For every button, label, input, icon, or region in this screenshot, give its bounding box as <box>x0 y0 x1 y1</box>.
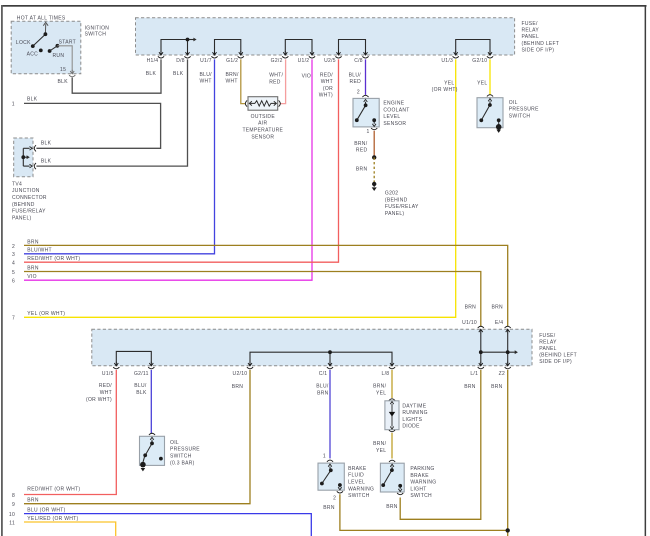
TV4 junction dot <box>21 155 25 159</box>
svg-text:BRN: BRN <box>491 384 503 390</box>
svg-text:OILPRESSURESWITCH(0.3 BAR): OILPRESSURESWITCH(0.3 BAR) <box>170 440 200 466</box>
splice dot BRN/RED-BRN <box>372 155 376 159</box>
oil 0.3bar contact top <box>150 442 154 446</box>
svg-text:BLK: BLK <box>27 97 38 103</box>
ignition switch box <box>11 21 81 74</box>
temperature sensor right terminal <box>279 100 281 106</box>
svg-text:U1/2: U1/2 <box>298 58 310 64</box>
svg-text:PARKINGBRAKEWARNINGLIGHTSWITCH: PARKINGBRAKEWARNINGLIGHTSWITCH <box>410 466 436 499</box>
wire BRN/WHT G1/2 to temperature sensor <box>241 59 246 103</box>
svg-text:BLK: BLK <box>173 71 184 77</box>
svg-text:9: 9 <box>12 502 15 508</box>
TV4 internal bus <box>23 147 32 168</box>
pin U2/10 connector <box>247 362 253 369</box>
svg-text:U2/5: U2/5 <box>324 58 336 64</box>
svg-text:RUN: RUN <box>53 53 65 59</box>
svg-text:BRN/YEL: BRN/YEL <box>373 384 386 397</box>
svg-text:BRN: BRN <box>492 305 504 311</box>
svg-text:BRN: BRN <box>465 305 477 311</box>
parking brake switch internals <box>383 464 402 491</box>
svg-text:BRN: BRN <box>323 505 335 511</box>
wire BRN brake fluid switch to junction <box>340 494 508 530</box>
svg-text:U1/3: U1/3 <box>441 58 453 64</box>
oil pressure switch 0.3 bar pin connector <box>149 433 155 440</box>
brake fluid switch internals <box>322 464 342 490</box>
svg-text:U1/5: U1/5 <box>102 371 114 377</box>
parking brake contact top <box>390 468 394 472</box>
ignition switch arrow to HOT feed <box>44 24 46 34</box>
contact RUN <box>48 49 52 53</box>
wire BRN U2/10 to node 9 <box>24 370 250 504</box>
brake fluid switch pin 1 connector <box>327 460 333 467</box>
svg-text:BLK: BLK <box>41 141 52 147</box>
fuse/relay panel (lower) <box>92 329 532 366</box>
pin E/4 connector <box>505 326 511 333</box>
panel internal link H1/4-D/8 with feed arrow <box>161 38 197 52</box>
panel internal link U1/3-G2/10 <box>456 40 490 52</box>
svg-text:BRN: BRN <box>386 504 398 510</box>
svg-text:5: 5 <box>12 270 15 276</box>
panel internal link U1/10-L/1 and E/4-Z2 with feed arrow <box>479 333 518 363</box>
svg-text:BRN: BRN <box>232 384 244 390</box>
diode top connector <box>389 399 395 401</box>
oil switch case ground arrow <box>496 130 501 133</box>
splice dot at G202 <box>372 182 376 186</box>
svg-text:(OR WHT): (OR WHT) <box>432 87 458 93</box>
svg-text:BRN: BRN <box>356 167 368 173</box>
ignition pin 15 connector <box>69 70 75 77</box>
pin C/1 connector <box>327 362 333 369</box>
svg-text:BLU (OR WHT): BLU (OR WHT) <box>27 508 65 514</box>
svg-text:RED/WHT (OR WHT): RED/WHT (OR WHT) <box>27 256 80 262</box>
TV4 pin connector lower <box>34 163 36 169</box>
svg-text:G1/2: G1/2 <box>226 58 238 64</box>
svg-text:2: 2 <box>12 244 15 250</box>
svg-text:G2/10: G2/10 <box>472 58 487 64</box>
svg-text:BLK: BLK <box>58 79 69 85</box>
ground G202 <box>372 184 377 191</box>
wire RED/WHT U1/5 to node 8 <box>24 370 116 495</box>
svg-text:U1/10: U1/10 <box>462 320 477 326</box>
panel internal link U1/5-G2/11 <box>116 351 151 362</box>
page frame top border <box>1 5 647 7</box>
svg-text:2: 2 <box>357 89 360 95</box>
svg-text:1: 1 <box>367 129 370 135</box>
svg-text:U1/7: U1/7 <box>200 58 212 64</box>
wire BLK node 1 to TV4 pin <box>24 103 161 148</box>
svg-text:FUSE/RELAYPANEL(BEHIND LEFTSID: FUSE/RELAYPANEL(BEHIND LEFTSIDE OF I/P) <box>522 21 560 53</box>
oil switch case ground contact <box>496 124 502 130</box>
svg-text:BRN: BRN <box>27 239 39 245</box>
coolant sensor pin 2 connector <box>362 95 368 102</box>
page frame right border <box>645 5 647 536</box>
oil 0.3bar case ground contact <box>140 462 146 468</box>
svg-text:FUSE/RELAYPANEL(BEHIND LEFTSID: FUSE/RELAYPANEL(BEHIND LEFTSIDE OF I/P) <box>539 333 577 365</box>
svg-text:G202(BEHINDFUSE/RELAYPANEL): G202(BEHINDFUSE/RELAYPANEL) <box>385 191 419 217</box>
svg-text:BRN: BRN <box>464 384 476 390</box>
svg-text:G2/2: G2/2 <box>271 58 283 64</box>
wire BLK ignition 15 to H1/4 <box>72 59 161 93</box>
svg-text:YEL: YEL <box>444 80 454 86</box>
wire BLU/BRN C/1 to brake fluid switch <box>329 370 331 459</box>
svg-text:1: 1 <box>323 453 326 459</box>
panel internal bus U2/10-C/1-L/8 <box>250 350 392 362</box>
wire BLU/BLK G2/11 to oil pressure switch 0.3 bar <box>150 370 152 434</box>
svg-text:BRN/RED: BRN/RED <box>354 141 367 154</box>
pin U1/7 connector <box>211 51 217 58</box>
coolant sensor switch internals <box>357 99 376 126</box>
wire BRN Z2 to bottom junction <box>507 370 509 536</box>
parking brake contact right <box>398 484 402 488</box>
panel internal link G2/2-U1/2 <box>285 40 312 52</box>
brake fluid contact right <box>338 483 342 487</box>
engine coolant level sensor box <box>353 98 379 127</box>
contact ACC <box>39 49 43 53</box>
wire BRN node 2 to E/4 <box>24 245 508 326</box>
svg-text:OILPRESSURESWITCH: OILPRESSURESWITCH <box>509 100 539 120</box>
wire WHT/RED G2/2 to temperature sensor <box>280 59 285 103</box>
svg-text:TV4JUNCTIONCONNECTOR(BEHINDFUS: TV4JUNCTIONCONNECTOR(BEHINDFUSE/RELAYPAN… <box>12 181 47 221</box>
svg-text:OUTSIDEAIRTEMPERATURESENSOR: OUTSIDEAIRTEMPERATURESENSOR <box>242 114 283 140</box>
svg-text:IGNITIONSWITCH: IGNITIONSWITCH <box>85 25 110 37</box>
parking brake warning light switch box <box>380 463 404 492</box>
pin G2/10 connector <box>487 51 493 58</box>
svg-text:RED/WHT(ORWHT): RED/WHT(ORWHT) <box>319 72 334 98</box>
svg-text:6: 6 <box>12 279 15 285</box>
pin Z2 connector <box>505 362 511 369</box>
ignition switch lever RUN-START <box>50 46 58 51</box>
pin U1/3 connector <box>453 51 459 58</box>
wire BRN/RED coolant sensor to splice <box>373 131 375 158</box>
svg-text:ENGINECOOLANTLEVELSENSOR: ENGINECOOLANTLEVELSENSOR <box>383 101 409 127</box>
coolant sensor pin 1 connector <box>371 128 377 130</box>
svg-text:7: 7 <box>12 316 15 322</box>
pin U1/2 connector <box>309 51 315 58</box>
svg-text:L/8: L/8 <box>382 371 390 377</box>
oil pressure switch 0.3 bar internals <box>143 437 154 462</box>
coolant sensor contact right <box>372 118 376 122</box>
wire YEL (OR WHT) U1/3 to node 7 <box>24 59 456 317</box>
pin C/8 connector <box>362 51 368 58</box>
temperature sensor resistor element <box>249 101 276 106</box>
parking brake switch pin connector <box>389 460 395 467</box>
wire BRN/YEL L/8 to diode <box>391 370 393 398</box>
pin D/8 connector <box>184 51 190 58</box>
oil switch contact right <box>497 118 501 122</box>
svg-text:WHT/RED: WHT/RED <box>269 73 283 86</box>
wire BRN/YEL diode to parking brake switch <box>391 433 393 459</box>
ignition pivot contact <box>44 32 48 36</box>
pin U1/5 connector <box>113 362 119 369</box>
svg-text:YEL/RED (OR WHT): YEL/RED (OR WHT) <box>27 516 78 522</box>
svg-text:HOT AT ALL TIMES: HOT AT ALL TIMES <box>17 15 66 21</box>
coolant sensor contact bottom-left <box>355 118 359 122</box>
brake fluid contact top <box>329 468 333 472</box>
ignition switch lever LOCK <box>33 34 46 46</box>
svg-text:YEL: YEL <box>477 80 487 86</box>
pin G2/11 connector <box>148 362 154 369</box>
oil 0.3bar contact mid <box>143 453 147 457</box>
page frame left border <box>1 5 3 536</box>
svg-text:LOCK: LOCK <box>16 40 31 46</box>
svg-text:1: 1 <box>12 102 15 108</box>
svg-text:BRN: BRN <box>27 265 39 271</box>
outside air temperature sensor box <box>248 97 278 111</box>
svg-text:11: 11 <box>9 520 15 526</box>
svg-text:YEL (OR WHT): YEL (OR WHT) <box>27 311 65 317</box>
brake fluid contact bottom-left <box>320 482 324 486</box>
svg-text:3: 3 <box>12 252 15 258</box>
wire BLU node 10 going off page <box>24 514 311 536</box>
svg-text:BLU/WHT: BLU/WHT <box>200 72 213 85</box>
svg-text:U2/10: U2/10 <box>233 371 248 377</box>
svg-text:H1/4: H1/4 <box>147 58 159 64</box>
TV4 pin connector upper <box>34 145 36 151</box>
pin U1/10 connector <box>478 326 484 333</box>
panel internal link U1/7-G1/2 <box>215 40 241 52</box>
wire BRN L/1 to parking brake switch <box>400 370 481 519</box>
svg-text:BLU/BRN: BLU/BRN <box>316 384 329 397</box>
svg-text:BRN/WHT: BRN/WHT <box>226 72 239 85</box>
oil 0.3bar case ground arrow <box>141 468 146 471</box>
svg-text:BRN/YEL: BRN/YEL <box>373 441 386 454</box>
wire YEL G2/10 to oil pressure switch <box>489 59 491 95</box>
parking brake contact bottom-left <box>381 483 385 487</box>
pin G2/2 connector <box>282 51 288 58</box>
fuse/relay panel (top) <box>136 18 515 55</box>
contact START <box>56 44 60 48</box>
wire BLU/WHT U1/7 to node 3 <box>24 59 215 253</box>
brake fluid level warning switch box <box>318 463 344 490</box>
svg-text:15: 15 <box>60 67 66 73</box>
svg-text:BLK: BLK <box>41 159 52 165</box>
svg-text:BLU/RED: BLU/RED <box>349 72 362 85</box>
svg-text:BRN: BRN <box>27 498 39 504</box>
svg-text:C/1: C/1 <box>319 371 328 377</box>
oil 0.3bar contact right <box>159 457 163 461</box>
wire YEL/RED node 11 going off page <box>24 522 116 536</box>
svg-text:BLU/WHT: BLU/WHT <box>27 248 52 254</box>
svg-text:10: 10 <box>9 512 15 518</box>
wire BRN splice to G202 (dashed) <box>373 157 375 184</box>
oil pressure switch pin connector <box>487 95 493 102</box>
svg-text:ACC: ACC <box>27 52 39 58</box>
parking brake switch bottom pin connector <box>397 493 403 495</box>
svg-text:C/8: C/8 <box>354 58 363 64</box>
svg-text:VIO: VIO <box>27 274 37 280</box>
oil switch contact top <box>488 103 492 107</box>
svg-text:BRAKEFLUIDLEVELWARNINGSWITCH: BRAKEFLUIDLEVELWARNINGSWITCH <box>348 466 374 499</box>
svg-text:L/1: L/1 <box>470 371 478 377</box>
contact LOCK <box>31 44 35 48</box>
svg-text:4: 4 <box>12 261 15 267</box>
wire RED/WHT U2/5 to node 4 <box>24 59 339 262</box>
oil pressure switch box <box>477 98 503 128</box>
diode bottom connector <box>389 430 395 432</box>
wire BLK D/8 to TV4 pin <box>36 59 187 166</box>
pin H1/4 connector <box>158 51 164 58</box>
svg-text:G2/11: G2/11 <box>134 371 149 377</box>
pin G1/2 connector <box>238 51 244 58</box>
wire BLU/RED C/8 to coolant level sensor <box>365 59 367 95</box>
oil pressure switch internals <box>481 99 498 125</box>
svg-text:RED/WHT (OR WHT): RED/WHT (OR WHT) <box>27 486 80 492</box>
svg-text:VIO: VIO <box>302 74 312 80</box>
coolant sensor contact top <box>364 103 368 107</box>
pin L/8 connector <box>389 362 395 369</box>
TV4 junction connector box <box>14 138 33 177</box>
oil switch contact bottom-left <box>479 118 483 122</box>
svg-text:RED/WHT(OR WHT): RED/WHT(OR WHT) <box>86 383 112 403</box>
pin U2/5 connector <box>335 51 341 58</box>
svg-text:E/4: E/4 <box>495 320 503 326</box>
temperature sensor left terminal <box>245 100 247 106</box>
wire BRN node 5 to U1/10 <box>24 272 481 327</box>
svg-text:BLU/BLK: BLU/BLK <box>134 383 147 396</box>
svg-text:D/8: D/8 <box>176 58 185 64</box>
brake fluid switch pin 2 connector <box>337 491 343 493</box>
junction dot bottom right <box>506 528 510 532</box>
pin L/1 connector <box>478 362 484 369</box>
diode internals <box>389 402 395 429</box>
svg-text:8: 8 <box>12 493 15 499</box>
daytime running lights diode box <box>385 401 399 430</box>
panel internal link U2/5-C/8 <box>339 40 366 52</box>
svg-text:BLK: BLK <box>146 71 157 77</box>
svg-text:DAYTIMERUNNINGLIGHTSDIODE: DAYTIMERUNNINGLIGHTSDIODE <box>402 403 427 429</box>
svg-text:Z2: Z2 <box>499 371 505 377</box>
ignition internal wire to pin 15 <box>57 46 72 71</box>
oil pressure switch 0.3 bar box <box>140 436 165 465</box>
svg-text:2: 2 <box>333 496 336 502</box>
svg-text:START: START <box>59 40 76 46</box>
wire VIO U1/2 to node 6 <box>24 59 312 280</box>
